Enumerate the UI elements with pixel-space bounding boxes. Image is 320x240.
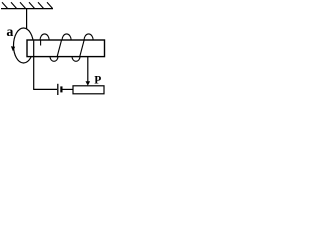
- slider arrowhead: [86, 81, 91, 86]
- coil diagonal 1: [57, 40, 62, 57]
- ring a (hanging aluminium ring): [14, 28, 34, 63]
- wire bottom horizontal left: [33, 88, 57, 90]
- string from ceiling: [26, 9, 28, 29]
- coil bottom arc 1: [50, 57, 58, 62]
- battery long plate: [57, 84, 59, 95]
- ceiling hatch marks: [2, 2, 53, 8]
- coil top arc 2: [62, 34, 71, 40]
- svg-text:P: P: [94, 74, 101, 86]
- coil stub at first turn: [40, 40, 42, 46]
- svg-text:a: a: [6, 25, 13, 40]
- coil top arc 1: [40, 34, 49, 40]
- coil left lead: [33, 41, 35, 90]
- ceiling support line: [1, 8, 53, 10]
- coil diagonal 2: [80, 40, 85, 57]
- solenoid core bar: [27, 40, 105, 57]
- battery short plate: [60, 86, 62, 92]
- coil bottom arc 2: [72, 57, 80, 62]
- rheostat body: [73, 86, 104, 94]
- wire battery to rheostat: [63, 88, 74, 90]
- slider wire from coil: [87, 57, 89, 83]
- arrowhead on ring left edge: [11, 46, 15, 51]
- coil top arc 3: [84, 34, 93, 40]
